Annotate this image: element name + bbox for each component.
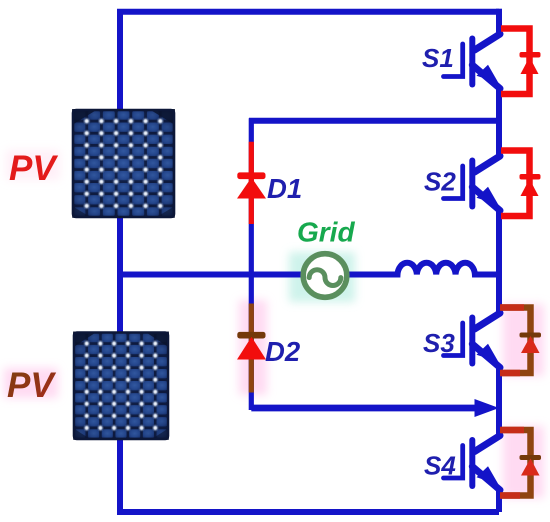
transistor S4 (IGBT): [444, 436, 501, 491]
diode D1: [237, 142, 266, 224]
wire: middle horizontal from left rail to grid source: [120, 272, 301, 278]
wire: grid source to inductor to right rail: [349, 263, 499, 275]
glow highlight behind S4 free-wheel diode loop: [503, 426, 544, 498]
wire: right rail S3 emitter to S4 collector: [496, 367, 502, 437]
diode D2: [237, 304, 266, 393]
wire: outer rectangle (top, left, bottom sides): [120, 12, 499, 512]
free-wheel diode of S4: [500, 430, 541, 496]
glow highlight behind S3 free-wheel diode loop: [503, 304, 544, 376]
transistor S3 (IGBT): [444, 313, 501, 368]
wire: right rail S2 emitter to S3 collector: [496, 210, 502, 314]
svg-text:PV: PV: [7, 366, 56, 405]
wire: D1/D2 branch vertical and D1 top horizontal: [249, 118, 499, 124]
PV panel upper: [72, 109, 175, 218]
free-wheel diode of S1: [501, 29, 541, 95]
transistor S1 (IGBT): [444, 34, 501, 89]
wire: D2 output horizontal with arrow into S3-S4 midpoint: [251, 405, 478, 412]
glow highlight behind diode D2: [239, 300, 267, 395]
svg-text:S4: S4: [424, 451, 456, 481]
wire: right rail S4 emitter to bottom: [496, 489, 502, 512]
PV panel lower: [73, 332, 169, 440]
svg-text:D1: D1: [267, 173, 302, 204]
wire: right rail S1 emitter to S2 collector: [496, 88, 502, 157]
svg-text:S1: S1: [422, 43, 454, 73]
svg-text:S2: S2: [424, 167, 456, 197]
svg-text:S3: S3: [423, 328, 455, 358]
glow highlight behind grid source: [289, 252, 355, 302]
svg-text:Grid: Grid: [297, 217, 355, 248]
glow highlight behind upper PV label: [6, 150, 60, 180]
free-wheel diode of S3: [500, 308, 541, 374]
grid AC source: [303, 254, 347, 298]
svg-text:PV: PV: [9, 149, 58, 188]
free-wheel diode of S2: [501, 151, 541, 217]
svg-text:D2: D2: [265, 336, 301, 367]
wire: right rail segment top to S1: [496, 9, 502, 35]
glow highlight behind lower PV label: [4, 368, 58, 398]
transistor S2 (IGBT): [444, 156, 501, 211]
